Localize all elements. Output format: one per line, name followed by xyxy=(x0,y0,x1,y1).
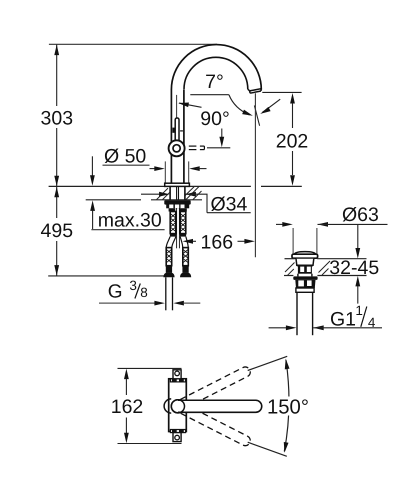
lever axis extension line xyxy=(176,95,178,119)
folded lever (alternate position) double dashes xyxy=(189,146,205,150)
spout outer arc xyxy=(171,45,261,90)
plan swivel legs xyxy=(248,356,288,370)
svg-text:162: 162 xyxy=(111,396,144,418)
svg-text:8: 8 xyxy=(140,285,148,300)
swivel arc left with arrowhead xyxy=(229,95,250,115)
hose connector right xyxy=(182,266,188,273)
diameter 50 dimension arrows xyxy=(150,168,158,170)
drain locknut xyxy=(295,280,315,288)
spout tube end edges xyxy=(248,89,261,91)
drain diameter 63 extension lines xyxy=(292,228,294,254)
7 degree reference underline xyxy=(190,94,229,96)
handle pivot outer circle xyxy=(169,140,185,156)
drain cap rim xyxy=(292,254,318,258)
plan bottom tab with screw xyxy=(173,433,181,442)
counter underside line at drain xyxy=(284,275,293,277)
lever right tick xyxy=(180,130,183,132)
spout tip level line xyxy=(262,91,301,93)
hose S-bend right xyxy=(180,237,188,248)
deck surface line xyxy=(49,185,251,187)
svg-text:Ø63: Ø63 xyxy=(342,204,379,226)
drain diameter 63 dimension line xyxy=(276,223,283,225)
countertop underside line xyxy=(86,199,141,201)
90 down arrow to folded lever line xyxy=(221,129,223,138)
dimension 166 xyxy=(183,239,194,244)
hose connector left xyxy=(166,266,172,273)
countertop hatching right xyxy=(185,187,202,200)
svg-text:7°: 7° xyxy=(205,71,224,93)
svg-text:303: 303 xyxy=(41,107,74,129)
plan spout pivot circle xyxy=(171,400,184,413)
spout inner arc xyxy=(184,57,248,89)
plan top tab with screw xyxy=(173,370,181,379)
svg-text:150°: 150° xyxy=(267,397,309,419)
svg-text:202: 202 xyxy=(276,131,309,153)
stud top collars xyxy=(169,208,176,211)
folded lever reference line xyxy=(207,147,230,149)
svg-text:Ø34: Ø34 xyxy=(211,194,248,216)
castellated locknut xyxy=(166,205,189,209)
svg-text:90°: 90° xyxy=(200,108,230,130)
max.30 down arrow xyxy=(91,156,93,176)
plan spout arm (solid position) xyxy=(178,400,262,412)
threaded shank through counter xyxy=(170,186,185,199)
plan top extension line xyxy=(118,367,182,369)
diameter 50 extension lines xyxy=(164,161,166,183)
supply stud right (threaded) xyxy=(180,212,186,234)
svg-text:Ø 50: Ø 50 xyxy=(104,145,146,167)
lever dark inset xyxy=(172,128,175,133)
dimension 303 vertical line xyxy=(56,45,58,187)
plan handle semicircle xyxy=(164,399,171,413)
dimension 162 vertical line xyxy=(124,369,129,380)
handle pivot inner circle xyxy=(173,145,180,152)
drain washer xyxy=(293,276,317,280)
svg-text:max.30: max.30 xyxy=(98,210,162,232)
locknut washer xyxy=(164,200,190,204)
G1 1/4 dimension line with arrows xyxy=(269,327,286,329)
max.30 underline xyxy=(91,229,164,231)
diameter 50 underline xyxy=(103,164,150,166)
label 150 degrees background xyxy=(266,397,312,416)
counter top line at drain xyxy=(285,258,295,260)
svg-text:G: G xyxy=(108,281,123,302)
swivel arc right with arrowhead xyxy=(263,99,281,112)
plan body rectangle xyxy=(169,379,187,432)
aerator strip (7 degree tilt) xyxy=(250,89,261,94)
countertop hatching left xyxy=(157,188,170,200)
counter hatching at drain xyxy=(285,261,330,275)
faucet riser pipe xyxy=(170,90,172,184)
svg-text:3: 3 xyxy=(129,278,137,293)
lever handle xyxy=(175,118,179,144)
drain pop-up cap dome xyxy=(294,252,315,255)
top extension line at spout apex xyxy=(49,43,217,45)
drain tailpiece tube xyxy=(296,292,298,335)
plan pivot circle outline over arm xyxy=(171,400,184,413)
dimension 202 xyxy=(290,93,295,104)
drain overflow windows xyxy=(298,266,312,274)
pop-up rod xyxy=(176,208,178,248)
plan top mounting bar xyxy=(170,379,185,382)
drain body through counter xyxy=(296,259,314,266)
90 leader arrow to lever axis xyxy=(179,103,202,107)
max.30 up arrow xyxy=(90,200,95,211)
hose S-bend left xyxy=(166,237,176,248)
drain nut base xyxy=(296,288,314,292)
svg-text:1: 1 xyxy=(355,303,363,318)
plan bottom mounting bar xyxy=(170,430,185,433)
diameter 34 leader and half-box xyxy=(185,194,250,213)
diameter 34 dimension arrows xyxy=(141,193,160,195)
svg-text:495: 495 xyxy=(41,220,74,242)
G3/8 tube below connector xyxy=(165,277,167,310)
hose lower right (threaded) xyxy=(183,248,189,266)
dashed spout arm lower position xyxy=(180,404,252,447)
hose lower left (threaded) xyxy=(166,248,172,266)
svg-text:32-45: 32-45 xyxy=(329,257,379,279)
escutcheon flange xyxy=(165,183,190,186)
dimension 32-45 arrows xyxy=(357,225,359,249)
spout tip extension line xyxy=(254,93,256,257)
dimension 495 vertical line xyxy=(56,187,58,276)
plan bottom extension line xyxy=(118,443,182,445)
drain cap neck xyxy=(296,257,314,260)
G3/8 dimension line with arrows xyxy=(99,302,155,304)
svg-text:166: 166 xyxy=(201,231,234,253)
dashed spout arm upper position xyxy=(180,365,252,408)
aerator 7-degree axis line xyxy=(254,106,259,126)
bottom reference line (hose ends) xyxy=(48,275,165,277)
supply stud left (threaded) xyxy=(170,212,176,234)
swivel range arc 150 xyxy=(284,360,289,452)
